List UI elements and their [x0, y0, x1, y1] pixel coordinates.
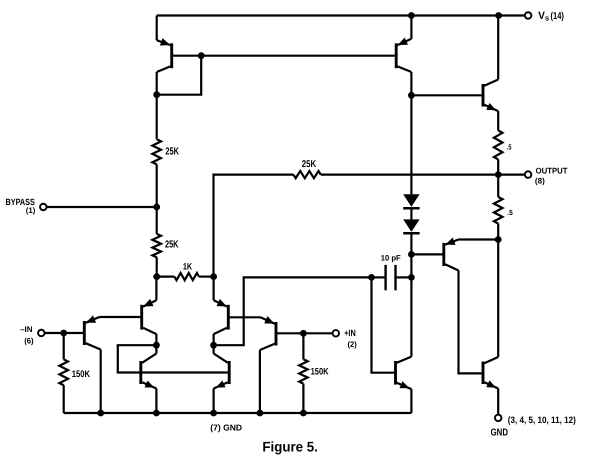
node Q8 base junction [408, 251, 415, 258]
node cap left junction [368, 274, 375, 281]
svg-text:(3, 4, 5, 10, 11, 12): (3, 4, 5, 10, 11, 12) [508, 415, 576, 425]
resistor R8 150K [299, 359, 308, 383]
wire cap left lead [372, 276, 385, 278]
wire Q5 base-collector tie [118, 345, 157, 372]
wire 1K right stub [199, 276, 214, 278]
wire Q11 collector down [410, 72, 412, 95]
wire +IN [303, 332, 332, 334]
wire cap right lead [397, 276, 412, 278]
node bypass junction [153, 204, 160, 211]
diode D1 [403, 194, 419, 207]
wire Q8 collector to Q9 base [459, 271, 482, 374]
svg-text:OUTPUT: OUTPUT [536, 165, 568, 175]
wire Q1 base [64, 332, 83, 334]
wire Q7 emitter down [497, 111, 499, 130]
wire D2 to Q8 base node [410, 233, 412, 254]
wire Q10 emitter to V+ rail [156, 16, 158, 41]
svg-text:Figure 5.: Figure 5. [262, 439, 318, 455]
svg-text:S: S [545, 16, 549, 23]
node 1K right junction [210, 273, 217, 280]
node Q10 base junction [198, 52, 205, 59]
svg-text:1K: 1K [183, 261, 193, 271]
svg-text:.5: .5 [507, 143, 512, 152]
wire R6 down [497, 224, 499, 240]
wire cap node down to Q12 collector [410, 277, 412, 356]
wire Q4 base to Q2 emitter [230, 316, 261, 318]
transistor Q3 [140, 305, 143, 330]
wire Q10 base lead [173, 55, 201, 57]
node compensation cap right junction [408, 274, 415, 281]
wire feedback left segment [214, 175, 294, 277]
transistor Q8 [442, 243, 445, 266]
transistor Q5 [139, 361, 142, 384]
svg-text:25K: 25K [165, 147, 179, 158]
wire Q9 emitter to GND terminal [497, 389, 499, 415]
transistor Q1 [83, 321, 86, 345]
wire D1 to D2 [410, 208, 412, 219]
svg-text:GND: GND [491, 428, 508, 439]
node Q1 collector rail junction [97, 410, 104, 417]
svg-text:25K: 25K [302, 159, 316, 170]
wire mirror base bus [201, 55, 395, 57]
wire Q3 emitter up to 1K node [155, 277, 157, 301]
wire R7 to ground rail [63, 385, 65, 413]
wire mirror base bus bottom [141, 371, 228, 373]
transistor Q12 [394, 361, 397, 385]
node Q10 collector junction [153, 91, 160, 98]
wire Q6 emitter to rail [213, 389, 215, 414]
wire R5 to output node [497, 159, 499, 174]
node Q8 emitter junction [495, 236, 502, 243]
wire Q9 collector up [497, 240, 499, 358]
wire -IN to base node [45, 332, 64, 334]
wire Q5 emitter to rail [155, 389, 157, 414]
svg-text:(1): (1) [26, 206, 36, 215]
wire +IN node to R8 [302, 333, 304, 359]
svg-text:25K: 25K [165, 240, 179, 251]
svg-text:(8): (8) [535, 176, 545, 185]
transistor Q9 [482, 362, 485, 385]
wire Q8 emitter to .5/Q9 node [459, 238, 499, 240]
terminal BYPASS (1) [40, 204, 47, 211]
transistor Q2 [275, 322, 278, 346]
node V+ rail junction at Q7 [495, 12, 502, 19]
node 1K left junction [153, 273, 160, 280]
wire Q12 emitter down [410, 389, 412, 413]
terminal GND (3,4,5,10,11,12) [495, 415, 502, 422]
wire output to terminal [498, 174, 524, 176]
wire Q7 base node to diode D1 [410, 95, 412, 194]
capacitor C1 10 pF [384, 265, 386, 290]
wire Q2 collector to rail [259, 350, 261, 413]
svg-text:–IN: –IN [20, 325, 32, 334]
wire Q3 collector down [155, 334, 157, 345]
wire Q10 base-collector tie [157, 56, 202, 95]
svg-text:150K: 150K [311, 367, 329, 378]
wire Q7 base [411, 94, 481, 96]
wire Q1 emitter to Q3 base [99, 316, 140, 318]
wire cap node to Q12 base [372, 277, 395, 372]
svg-text:+IN: +IN [344, 328, 356, 338]
svg-text:(6): (6) [24, 336, 34, 345]
node -IN junction [60, 330, 67, 337]
svg-text:.5: .5 [507, 208, 513, 217]
wire Q8 base node down to cap node [410, 254, 412, 277]
wire Q7 collector to V+ rail [497, 16, 499, 80]
node output junction [495, 171, 502, 178]
wire Q11 emitter to V+ rail [410, 16, 412, 39]
terminal OUTPUT (8) [525, 171, 532, 178]
wire Q4 collector down [213, 334, 215, 345]
wire Q6 collector up [213, 345, 215, 353]
node Q2 collector rail junction [257, 410, 264, 417]
node R8 rail junction [300, 410, 307, 417]
svg-text:(2): (2) [348, 340, 358, 349]
resistor R7 150K [59, 359, 68, 385]
wire bypass [47, 206, 157, 208]
wire -IN node to R7 [63, 333, 65, 359]
wire Q5 collector up [155, 345, 157, 353]
resistor R5 .5 [494, 130, 503, 159]
svg-text:10 pF: 10 pF [381, 253, 401, 262]
wire second stage input [214, 277, 372, 345]
wire Q2 base [277, 332, 303, 334]
node mirror left junction [153, 342, 160, 349]
wire ground rail [64, 412, 412, 414]
terminal +IN (2) [333, 330, 340, 337]
node mirror right junction [210, 342, 217, 349]
node +IN junction [300, 330, 307, 337]
svg-text:(14): (14) [551, 11, 564, 22]
node Q6 emitter rail junction [210, 410, 217, 417]
wire R1 to bypass node [156, 164, 158, 234]
wire V+ top rail [157, 14, 525, 16]
wire R2 to 1K node [156, 257, 158, 276]
transistor Q4 [227, 305, 230, 330]
node Q5 emitter rail junction [153, 410, 160, 417]
svg-text:150K: 150K [72, 369, 90, 380]
resistor R3 1K [175, 273, 199, 280]
resistor R6 .5 [494, 197, 503, 224]
diode D2 [403, 219, 419, 232]
transistor Q7 [482, 84, 485, 107]
transistor Q6 [228, 361, 231, 384]
node Q11 collector / Q7 base [408, 92, 415, 99]
resistor R4 25K feedback [293, 171, 320, 178]
transistor Q11 [395, 43, 398, 68]
resistor R1 25K [152, 139, 161, 164]
wire Q10 collector down [156, 72, 158, 139]
wire Q4 emitter up to 1K node [213, 277, 215, 301]
wire feedback right segment [321, 174, 498, 176]
wire output to R6 [497, 175, 499, 197]
wire Q1 collector to ground rail [100, 350, 102, 414]
wire 1K left stub [157, 276, 175, 278]
terminal -IN (6) [38, 330, 45, 337]
svg-text:(7) GND: (7) GND [210, 422, 242, 432]
terminal Vs (14) [525, 12, 532, 19]
wire Q8 base [411, 253, 442, 255]
transistor Q10 [170, 43, 173, 68]
node V+ rail junction at Q11 [408, 12, 415, 19]
wire R8 to rail [302, 384, 304, 413]
resistor R2 25K [152, 234, 161, 257]
